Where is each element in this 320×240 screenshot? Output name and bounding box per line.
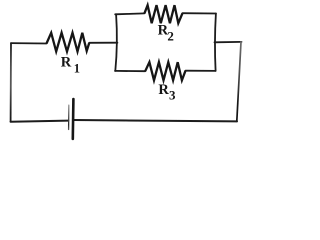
wire: box left side vertical bbox=[115, 14, 117, 71]
wire: mid-right connector from box to outer right wire bbox=[215, 41, 242, 43]
wire: bottom left horizontal from corner to battery bbox=[11, 121, 69, 122]
resistor R3 bbox=[145, 62, 185, 80]
battery cell: long positive plate bbox=[72, 99, 75, 139]
wire: box top branch right lead bbox=[183, 12, 216, 14]
svg-text:3: 3 bbox=[169, 88, 176, 103]
wire: outer right vertical bbox=[237, 42, 241, 121]
wire: box bottom branch left lead bbox=[115, 70, 145, 72]
resistor R2 bbox=[144, 5, 182, 23]
svg-text:1: 1 bbox=[74, 62, 80, 76]
wire: box top branch left lead bbox=[115, 12, 144, 15]
wire: box right side vertical bbox=[214, 14, 217, 71]
battery cell: short negative plate bbox=[68, 105, 70, 129]
wire: left vertical side bbox=[10, 43, 12, 122]
wire: bottom right horizontal from battery to right corner bbox=[74, 120, 237, 121]
wire: top-left horizontal from corner to R1 bbox=[11, 42, 47, 44]
svg-text:R: R bbox=[158, 82, 169, 98]
wire: box bottom branch right lead bbox=[186, 70, 216, 72]
svg-text:R: R bbox=[61, 55, 72, 71]
resistor R1 bbox=[47, 33, 90, 52]
svg-text:2: 2 bbox=[167, 29, 174, 44]
wire: R1 to parallel box bbox=[89, 42, 117, 44]
